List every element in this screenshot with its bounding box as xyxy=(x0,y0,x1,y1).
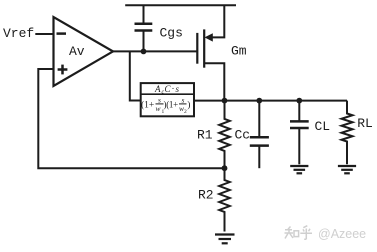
svg-text:Gm: Gm xyxy=(231,44,247,59)
svg-text:Vref: Vref xyxy=(3,26,34,41)
svg-text:R1: R1 xyxy=(197,128,213,143)
svg-text:R2: R2 xyxy=(198,187,214,202)
svg-text:Cc: Cc xyxy=(235,128,251,143)
svg-text:RL: RL xyxy=(357,116,373,131)
svg-text:1: 1 xyxy=(162,109,165,115)
svg-text:(1+: (1+ xyxy=(141,100,154,111)
svg-text:)(1+: )(1+ xyxy=(164,100,179,110)
svg-text:CL: CL xyxy=(315,119,331,134)
svg-text:w: w xyxy=(156,104,161,113)
svg-text:@Azeee: @Azeee xyxy=(318,227,366,241)
svg-text:s: s xyxy=(176,84,180,94)
svg-text:): ) xyxy=(187,100,190,111)
svg-text:Cgs: Cgs xyxy=(160,26,183,41)
svg-text:·: · xyxy=(172,84,175,94)
svg-text:C: C xyxy=(165,84,172,94)
svg-text:Av: Av xyxy=(69,44,85,59)
svg-text:A: A xyxy=(154,84,161,94)
